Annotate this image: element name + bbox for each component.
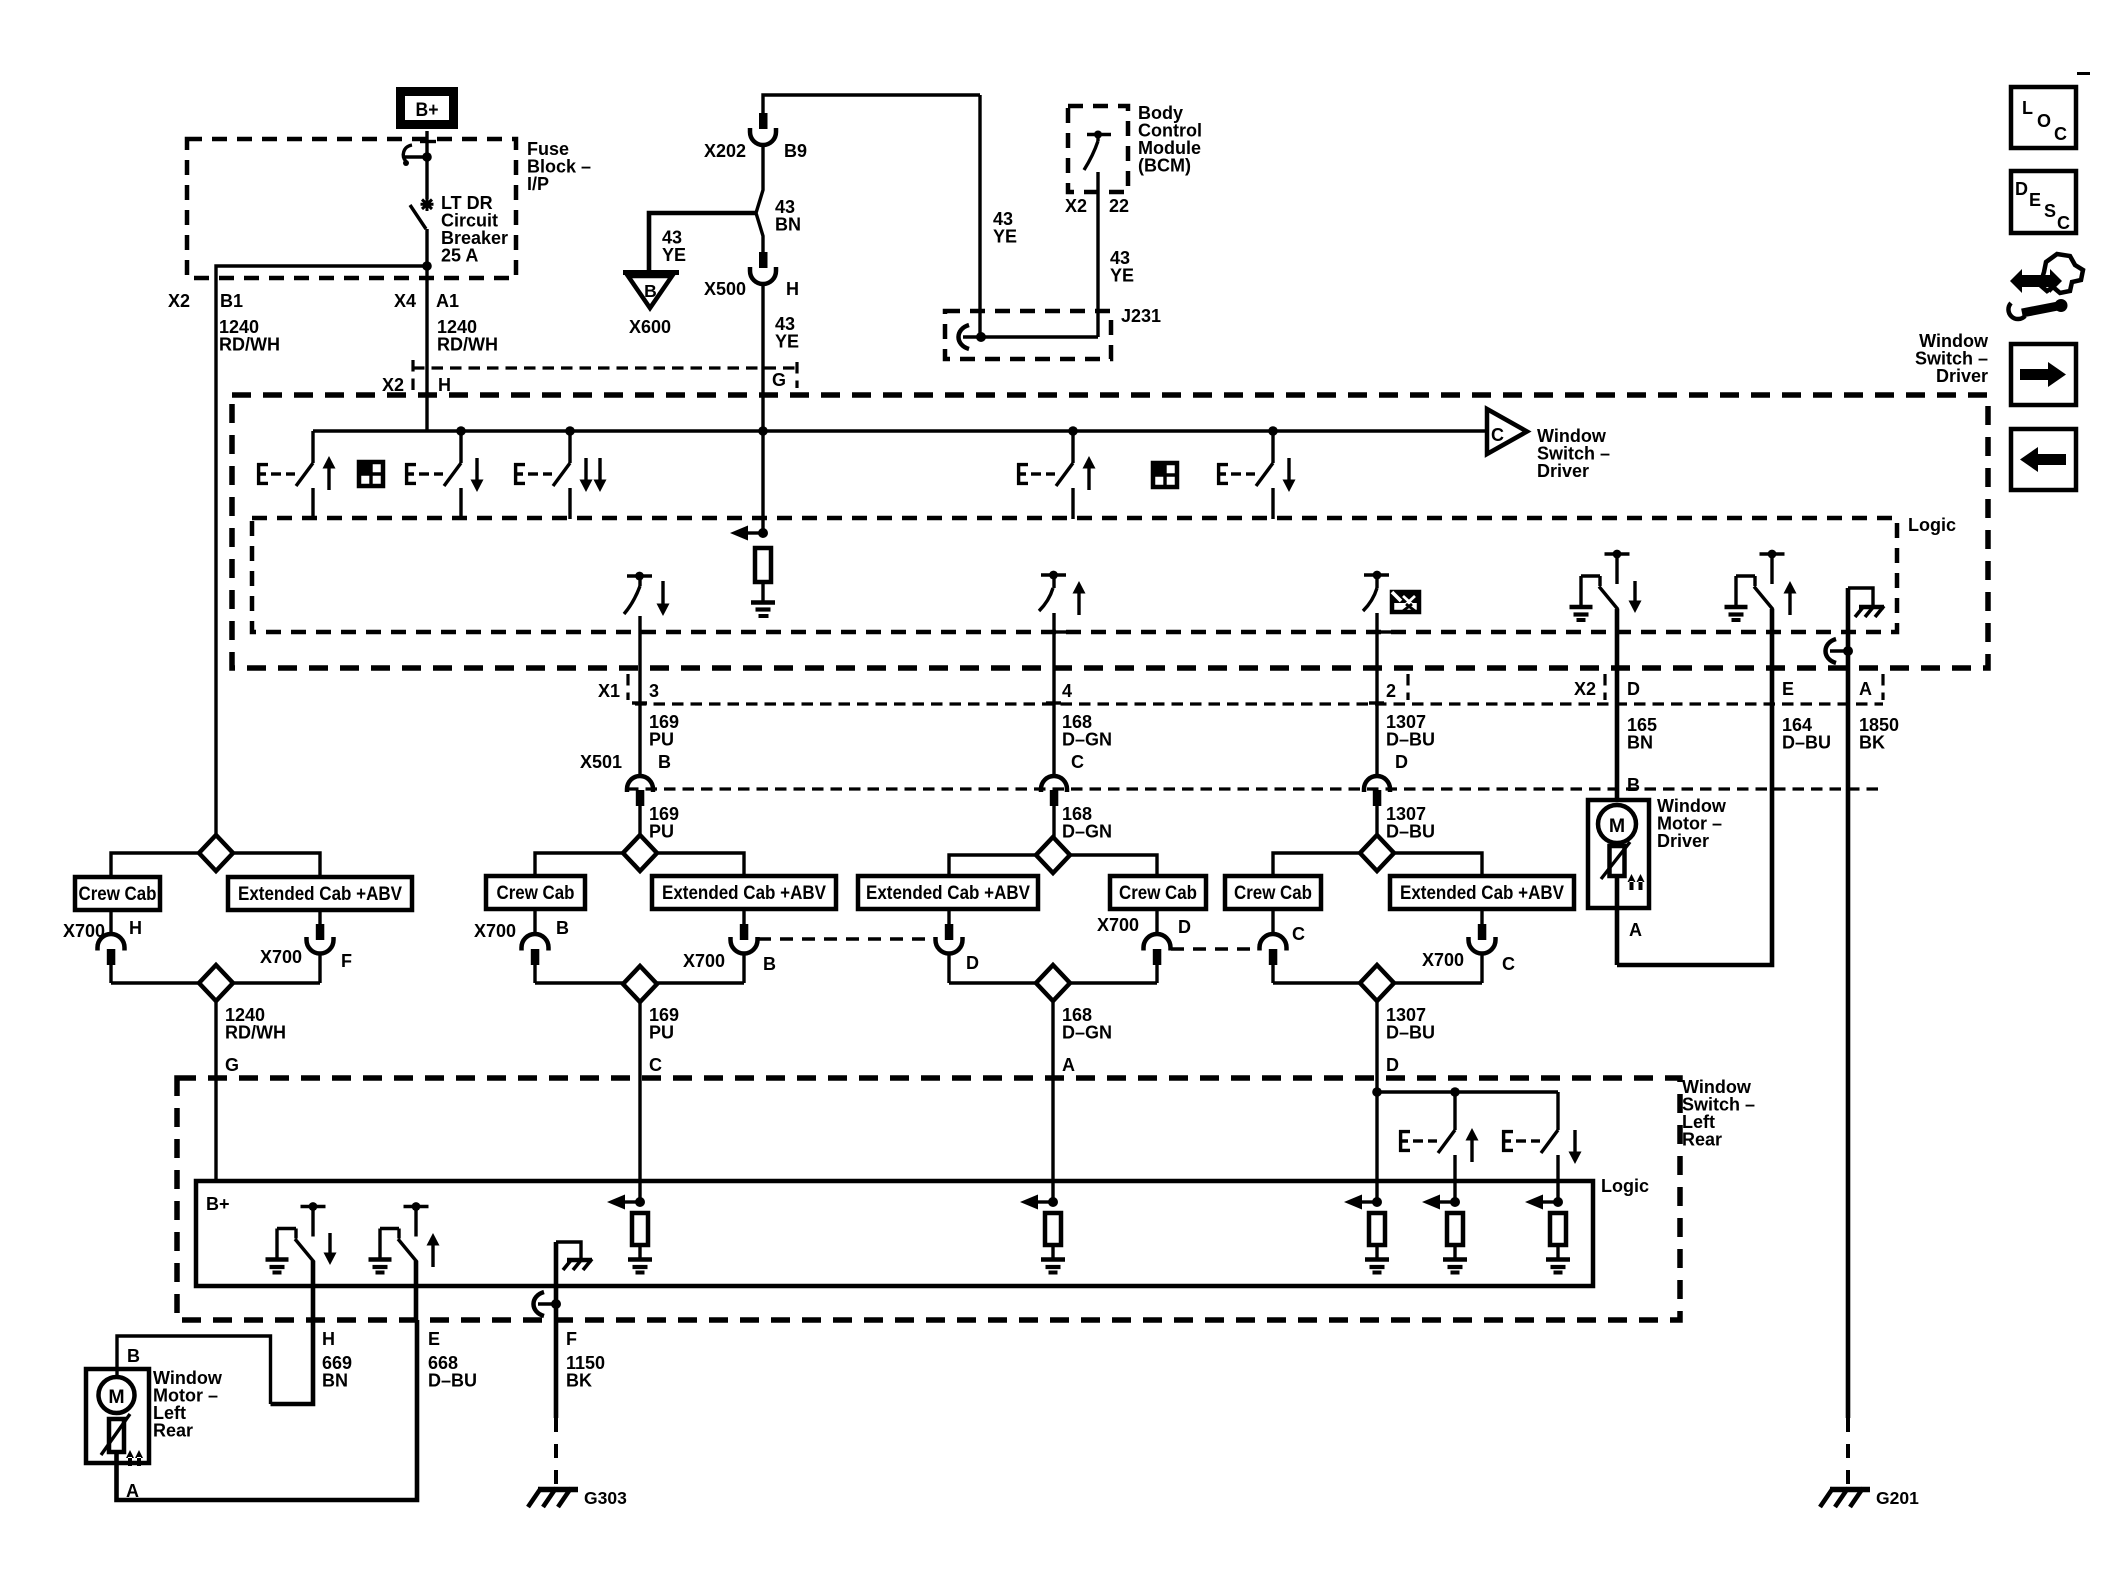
changeover switch motor down left rear [266, 1202, 337, 1272]
logic output switch up driver [1039, 571, 1086, 615]
connector C crew 4 [1260, 909, 1306, 983]
wire 1307 D-BU to left rear switch [1375, 1001, 1378, 1092]
wire B+ to circuit breaker [425, 131, 428, 155]
svg-text:PU: PU [649, 730, 674, 750]
wire label 168 D-GN below X501 [1062, 804, 1112, 842]
connector X700 C extended 4 [1422, 909, 1515, 983]
wire labels 169 PU 168 D-GN 1307 D-BU 165 BN 164 D-BU 1850 BK [649, 712, 1899, 753]
connector label X2 B1 [168, 291, 243, 311]
svg-text:X500: X500 [704, 279, 746, 299]
nav icon LOC [2011, 87, 2076, 148]
window icon up [359, 462, 383, 486]
connector label X4 A1 [394, 291, 459, 311]
splice diamond 1240 top [199, 835, 233, 871]
connector X700 D crew 3 [1097, 909, 1191, 983]
splice J231 wire and clip [959, 325, 1099, 349]
svg-text:M: M [1609, 815, 1625, 837]
svg-text:X4: X4 [394, 291, 416, 311]
label window motor left rear [153, 1368, 223, 1441]
wire label 1150 BK [566, 1353, 605, 1391]
nav icon vehicle wrench [2008, 254, 2083, 319]
switch driver window express down [514, 431, 607, 519]
connector X700 B crew 2 [474, 909, 569, 983]
svg-text:Crew Cab: Crew Cab [1234, 882, 1312, 904]
svg-text:PU: PU [649, 822, 674, 842]
svg-text:D–GN: D–GN [1062, 822, 1112, 842]
splice diamond 1307 top [1360, 835, 1394, 871]
wire diamond to extended cab 3 [949, 855, 1036, 876]
wire 1150 BK to G303 [554, 1418, 558, 1489]
switch left rear window down [1502, 1092, 1582, 1202]
Body Control Module BCM box [1068, 106, 1128, 192]
option box Extended Cab +ABV 1 [228, 877, 412, 910]
wire 169 PU to left rear switch [638, 1002, 641, 1202]
svg-text:B: B [556, 918, 569, 938]
splice diamond 168 top [1036, 837, 1070, 873]
option box Crew Cab 1 [75, 877, 160, 910]
svg-text:X202: X202 [704, 141, 746, 161]
wire D branch in left rear switch [1372, 1087, 1558, 1202]
svg-text:Extended Cab +ABV: Extended Cab +ABV [238, 883, 402, 905]
svg-text:B9: B9 [784, 141, 807, 161]
svg-text:H: H [438, 375, 451, 395]
Window Switch - Driver box [232, 395, 1988, 668]
svg-text:Logic: Logic [1601, 1176, 1649, 1196]
splice J231 box [945, 311, 1111, 359]
nav icon DESC [2011, 171, 2076, 233]
circuit breaker label [441, 193, 508, 266]
wire ground pin A with clip [1826, 588, 1854, 1418]
svg-text:YE: YE [993, 227, 1017, 247]
changeover switch motor down driver [1570, 550, 1642, 620]
svg-text:X700: X700 [1097, 915, 1139, 935]
wire label 169 PU C [649, 1005, 679, 1075]
wire BCM pin 22 to J231 [1096, 172, 1099, 337]
wire label 1307 D-BU below X501 [1386, 804, 1435, 842]
svg-text:X501: X501 [580, 752, 622, 772]
connector X501 C [1041, 776, 1067, 837]
option box Crew Cab 2 [486, 876, 585, 909]
svg-text:D: D [2015, 179, 2028, 199]
connector X501 D [1364, 776, 1390, 835]
wire label 43 YE below X500 [775, 314, 799, 352]
switch passenger window up [1017, 431, 1096, 519]
logic box left rear [196, 1181, 1593, 1286]
wire label 1240 RD/WH left [219, 317, 280, 355]
option box Crew Cab 3 [1110, 876, 1206, 909]
Logic box driver [252, 518, 1897, 632]
svg-text:D–BU: D–BU [1386, 822, 1435, 842]
svg-text:C: C [1292, 924, 1305, 944]
wire label 43 BN [775, 197, 801, 235]
svg-text:X700: X700 [63, 921, 105, 941]
label window motor driver [1657, 796, 1727, 851]
nav icon next arrow [2011, 344, 2076, 405]
svg-text:25 A: 25 A [441, 246, 478, 266]
wire diamond to extended cab 4 [1394, 853, 1482, 876]
wire diamond to extended cab 1 [233, 853, 320, 877]
svg-text:BN: BN [1627, 733, 1653, 753]
svg-text:D–BU: D–BU [1782, 733, 1831, 753]
ground triangle B X600 [623, 273, 679, 338]
switch passenger window down [1217, 431, 1296, 519]
svg-text:D–BU: D–BU [428, 1371, 477, 1391]
svg-text:YE: YE [775, 332, 799, 352]
svg-text:M: M [108, 1386, 124, 1408]
svg-text:(BCM): (BCM) [1138, 156, 1191, 176]
resistor pull to ground at X500 input [730, 431, 775, 616]
wire motor driver A to switch [1617, 876, 1642, 965]
wire diamond to crew cab 4 [1273, 853, 1360, 876]
switch driver window up [257, 431, 336, 519]
svg-text:D–BU: D–BU [1386, 730, 1435, 750]
svg-text:D: D [1395, 752, 1408, 772]
svg-text:Driver: Driver [1537, 461, 1589, 481]
Window Switch - Driver label top right [1915, 331, 1989, 386]
svg-text:D: D [1178, 917, 1191, 937]
svg-text:Extended Cab +ABV: Extended Cab +ABV [1400, 882, 1564, 904]
svg-text:C: C [1502, 954, 1515, 974]
svg-text:X700: X700 [683, 951, 725, 971]
option box Extended Cab +ABV 2 [652, 876, 836, 909]
splice diamond 1240 bottom [111, 965, 320, 1001]
wire 43 YE X500 down to bus [761, 283, 764, 431]
svg-text:F: F [566, 1329, 577, 1349]
wire pin F with clip [534, 1242, 562, 1418]
svg-text:G: G [772, 370, 786, 390]
connector row X2-H / G [382, 360, 797, 395]
svg-text:YE: YE [662, 245, 686, 265]
BCM label [1138, 103, 1202, 176]
svg-text:Extended Cab +ABV: Extended Cab +ABV [662, 882, 826, 904]
wire motor A to 668 D-BU [117, 1320, 418, 1501]
svg-text:B: B [658, 752, 671, 772]
svg-text:B+: B+ [206, 1194, 230, 1214]
svg-text:D: D [1386, 1055, 1399, 1075]
svg-text:X2: X2 [1574, 679, 1596, 699]
switch left rear window up [1399, 1092, 1479, 1202]
svg-text:A1: A1 [436, 291, 459, 311]
svg-text:X2: X2 [382, 375, 404, 395]
wire 43 BN X202 to X500 [756, 143, 763, 253]
svg-text:B: B [127, 1346, 140, 1366]
resistor to ground pin C left rear [607, 1195, 652, 1273]
wire branch to X600 ground [649, 213, 756, 272]
svg-text:BK: BK [566, 1371, 592, 1391]
svg-text:X2: X2 [168, 291, 190, 311]
svg-text:H: H [129, 918, 142, 938]
Fuse Block - I/P box [187, 139, 516, 278]
wire motor driver down pin D [1615, 609, 1620, 800]
svg-text:2: 2 [1386, 681, 1396, 701]
svg-text:Driver: Driver [1657, 831, 1709, 851]
wire motor B route [117, 1336, 271, 1404]
svg-text:D–GN: D–GN [1062, 730, 1112, 750]
wire breaker down to window switch driver [425, 266, 428, 431]
svg-text:A: A [126, 1481, 139, 1501]
window motor left rear box [86, 1369, 149, 1463]
resistor to ground down switch left rear [1525, 1195, 1570, 1273]
connector X501 B [627, 776, 653, 835]
svg-text:BN: BN [775, 215, 801, 235]
wire 43 YE bus branch down to J231 [978, 95, 981, 337]
svg-text:RD/WH: RD/WH [219, 335, 280, 355]
wire diamond to crew cab 2 [535, 853, 623, 876]
svg-text:A: A [1859, 679, 1872, 699]
svg-text:22: 22 [1109, 196, 1129, 216]
connector X202 B9 [704, 113, 807, 161]
resistor to ground pin D left rear [1344, 1195, 1389, 1273]
svg-text:X700: X700 [474, 921, 516, 941]
Window Switch - Left Rear box [177, 1078, 1680, 1320]
svg-text:A: A [1629, 920, 1642, 940]
logic output switch express driver [1363, 571, 1389, 611]
wire diamond to crew cab 1 [111, 853, 199, 877]
nav icon back arrow [2011, 429, 2076, 490]
wire top bus X202 to BCM branch [763, 95, 980, 113]
ground G201 [1820, 1488, 1919, 1508]
svg-text:L: L [2022, 98, 2033, 118]
wire label 43 YE at BCM [1110, 248, 1134, 286]
svg-text:X600: X600 [629, 317, 671, 337]
svg-text:O: O [2037, 111, 2051, 131]
svg-text:H: H [322, 1329, 335, 1349]
splice diamond 169 top [623, 835, 657, 871]
double up arrows driver motor [1628, 874, 1645, 890]
wire motor driver up pin E [1617, 609, 1772, 965]
resistor to ground up switch left rear [1422, 1195, 1467, 1273]
wire 1850 BK to G201 [1846, 1418, 1850, 1489]
splice diamond 168 bottom [949, 965, 1157, 1001]
svg-text:B1: B1 [220, 291, 243, 311]
connector row X1 X2 driver [598, 674, 1883, 704]
svg-text:E: E [1782, 679, 1794, 699]
svg-text:D: D [966, 953, 979, 973]
connector X700 F extended 1 [260, 910, 352, 983]
connector X700 H crew 1 [63, 910, 142, 983]
svg-text:BK: BK [1859, 733, 1885, 753]
svg-text:H: H [786, 279, 799, 299]
svg-text:YE: YE [1110, 266, 1134, 286]
wire diamond to crew cab 3 [1070, 855, 1157, 876]
svg-text:Rear: Rear [1682, 1130, 1722, 1150]
wire label 669 BN [322, 1353, 352, 1391]
wire label 43 YE at branch [993, 209, 1017, 247]
wire label 1307 D-BU D [1386, 1005, 1435, 1075]
switch driver window down [405, 431, 484, 519]
splice diamond 169 bottom [535, 966, 744, 1002]
wire label 168 D-GN A [1062, 1005, 1112, 1075]
svg-text:Extended Cab +ABV: Extended Cab +ABV [866, 882, 1030, 904]
svg-text:3: 3 [649, 681, 659, 701]
svg-text:Crew Cab: Crew Cab [1119, 882, 1197, 904]
svg-text:B: B [1627, 775, 1640, 795]
option box Extended Cab +ABV 4 [1390, 876, 1574, 909]
label window switch driver at buffer [1537, 426, 1610, 481]
svg-text:Crew Cab: Crew Cab [497, 882, 575, 904]
svg-text:Crew Cab: Crew Cab [79, 883, 157, 905]
circuit breaker LT DR 25 A [403, 142, 436, 271]
thermistor driver [1601, 842, 1630, 879]
svg-text:RD/WH: RD/WH [437, 335, 498, 355]
svg-text:X2: X2 [1065, 196, 1087, 216]
thermistor left rear [101, 1414, 130, 1455]
wire pin H left rear [311, 1261, 316, 1320]
chassis ground in driver logic [1848, 588, 1884, 617]
svg-text:C: C [2057, 213, 2070, 233]
Window Switch - Left Rear label [1682, 1077, 1755, 1150]
svg-text:X700: X700 [1422, 950, 1464, 970]
svg-text:E: E [2029, 190, 2041, 210]
connector X700 B extended 2 [683, 909, 776, 983]
svg-text:Logic: Logic [1908, 515, 1956, 535]
svg-text:D–GN: D–GN [1062, 1023, 1112, 1043]
motor M left rear [99, 1377, 135, 1413]
double up arrows left rear motor [126, 1450, 143, 1466]
wire pin E left rear [414, 1261, 419, 1320]
mark top right [2077, 72, 2090, 75]
svg-text:I/P: I/P [527, 174, 549, 194]
svg-text:D: D [1627, 679, 1640, 699]
svg-text:G303: G303 [584, 1488, 627, 1508]
option box Crew Cab 4 [1225, 876, 1321, 909]
window motor driver box [1588, 800, 1649, 908]
buffer C window switch driver output [1487, 409, 1527, 454]
svg-text:D–BU: D–BU [1386, 1023, 1435, 1043]
svg-text:Driver: Driver [1936, 366, 1988, 386]
wire 1240 RD/WH to left rear switch [214, 1001, 217, 1181]
ground G303 [528, 1488, 627, 1508]
svg-text:RD/WH: RD/WH [225, 1023, 286, 1043]
wire logic pin 4 [1046, 613, 1068, 776]
svg-text:G201: G201 [1876, 1488, 1919, 1508]
wire dashed X700 link 3-4 [1171, 947, 1259, 951]
svg-text:B+: B+ [416, 99, 439, 121]
svg-text:BN: BN [322, 1371, 348, 1391]
window express icon [1392, 592, 1419, 612]
connector row X501 [580, 752, 1880, 789]
svg-text:C: C [649, 1055, 662, 1075]
Fuse Block - I/P label [527, 139, 591, 194]
svg-text:C: C [2054, 124, 2067, 144]
wire breaker to left branch 1240 RD/WH [216, 266, 427, 835]
wire label 169 PU below X501 [649, 804, 679, 842]
option box Extended Cab +ABV 3 [858, 876, 1038, 909]
wire dashed X700 link 2-3 [758, 937, 935, 941]
svg-text:G: G [225, 1055, 239, 1075]
changeover switch motor up driver [1725, 550, 1797, 620]
svg-text:X700: X700 [260, 947, 302, 967]
changeover switch motor up left rear [369, 1202, 440, 1272]
svg-text:C: C [1491, 425, 1504, 445]
motor M driver [1598, 805, 1636, 843]
bus wire in driver switch [313, 429, 1487, 432]
svg-text:A: A [1062, 1055, 1075, 1075]
chassis ground in left rear logic [556, 1242, 592, 1270]
logic output switch down driver [624, 572, 670, 616]
svg-text:E: E [428, 1329, 440, 1349]
wire label 1240 RD/WH right [437, 317, 498, 355]
wire logic pin 3 [632, 616, 654, 776]
svg-text:PU: PU [649, 1023, 674, 1043]
svg-text:F: F [341, 951, 352, 971]
splice diamond 1307 bottom [1273, 965, 1482, 1001]
connector D extended 3 [936, 909, 980, 983]
wire 168 D-GN to left rear switch [1051, 1001, 1054, 1202]
resistor to ground pin A left rear [1020, 1195, 1065, 1273]
wire label 1240 RD/WH G [225, 1005, 286, 1075]
wire diamond to extended cab 2 [657, 853, 744, 876]
wire label 668 D-BU [428, 1353, 477, 1391]
svg-text:S: S [2044, 201, 2056, 221]
wire logic pin 2 [1369, 613, 1391, 776]
window icon passenger [1153, 463, 1177, 487]
pin labels H E F left rear [322, 1329, 577, 1349]
svg-text:C: C [1071, 752, 1084, 772]
wire label 43 YE at X600 [662, 228, 686, 266]
svg-text:Rear: Rear [153, 1421, 193, 1441]
connector label X2 22 [1065, 196, 1129, 216]
svg-text:B: B [644, 281, 657, 301]
svg-text:B: B [763, 954, 776, 974]
svg-text:J231: J231 [1121, 306, 1161, 326]
wire 669 BN to motor B [271, 1320, 314, 1404]
power symbol B+ [401, 92, 454, 125]
svg-text:4: 4 [1062, 681, 1072, 701]
connector X500 H [704, 252, 799, 299]
BCM internal switch [1084, 131, 1111, 171]
node bus dots [456, 426, 1278, 436]
svg-text:X1: X1 [598, 681, 620, 701]
